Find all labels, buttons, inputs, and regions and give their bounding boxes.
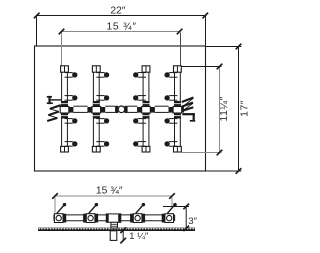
manifold fitting at tube 2 — [87, 101, 105, 119]
burner tube 2 (vertical pipe) — [92, 66, 100, 152]
gas inlet pipe below panel — [110, 231, 117, 241]
svg-text:17″: 17″ — [239, 100, 250, 117]
manifold fitting at tube 4 — [169, 101, 184, 119]
burner tube 1 (vertical pipe) — [61, 66, 69, 152]
svg-text:15 ¾″: 15 ¾″ — [106, 22, 136, 33]
center inlet orifice circle — [118, 106, 125, 113]
dimension 1 1/4 inch drop — [122, 230, 124, 241]
manifold bar segment 3 (center-tube3) — [128, 106, 138, 112]
side view fitting 2 with mounting clip — [83, 203, 98, 223]
burner tube 4 (vertical pipe) — [174, 66, 182, 152]
manifold bar segment 1 (tube1-tube2) — [73, 106, 87, 112]
threaded nipple — [111, 222, 118, 228]
center union collar left — [115, 106, 118, 113]
tube 1 outlet stubs — [65, 73, 77, 147]
tube 3 outlet stubs — [134, 73, 146, 147]
dimension 11 1/4 inch tube length — [182, 66, 222, 68]
svg-text:22″: 22″ — [110, 6, 125, 17]
manifold fitting at tube 1 — [60, 101, 73, 119]
dimension 17 inch overall depth — [206, 47, 241, 172]
manifold bar segment 2 (tube2-center) — [105, 106, 115, 112]
mounting panel, hatched section — [38, 228, 195, 231]
dimension 15 3/4 inch, side view — [55, 196, 172, 213]
plate outline (burner pan, top view) — [35, 46, 206, 171]
dimension 22 inch overall width — [37, 16, 206, 46]
tube 4 outlet stubs — [165, 73, 177, 147]
flex connector spring, right of tube 4 — [182, 98, 195, 122]
svg-text:15 ¾″: 15 ¾″ — [96, 186, 123, 197]
svg-text:11¼″: 11¼″ — [218, 96, 230, 121]
side view fitting 3 with mounting clip — [130, 203, 145, 223]
side view fitting 1 with mounting clip — [54, 203, 66, 223]
manifold fitting at tube 3 — [137, 101, 155, 119]
manifold bar segment 4 (tube3-tube4) — [155, 106, 169, 112]
dimension 15 3/4 inch tube spacing, top view — [62, 32, 180, 66]
dimension 3 inch height — [163, 206, 189, 228]
svg-text:3″: 3″ — [188, 216, 197, 227]
svg-text:1 ¼″: 1 ¼″ — [129, 230, 149, 241]
center tee fitting, side view — [106, 214, 121, 222]
burner tube 3 (vertical pipe) — [142, 66, 150, 152]
center union collar right — [124, 106, 127, 113]
flex connector spring, left end — [47, 96, 61, 121]
side view fitting 4 with mounting clip — [162, 203, 177, 223]
tube 2 outlet stubs — [96, 73, 108, 147]
manifold tube, side view — [54, 215, 175, 221]
